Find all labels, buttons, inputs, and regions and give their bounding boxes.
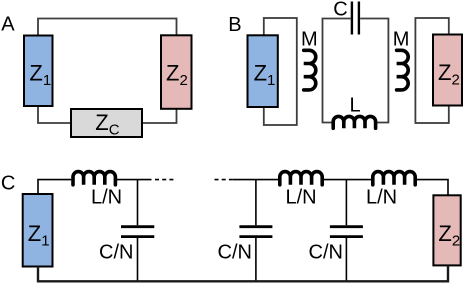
inductor L/N second (panel C) <box>280 172 322 185</box>
wire top of A <box>38 19 177 36</box>
shunt branch node 2 wire <box>255 180 257 281</box>
coupling coil M left (panel B) <box>304 50 316 90</box>
svg-text:B: B <box>228 14 241 36</box>
shunt branch node 1 wire <box>137 180 139 281</box>
impedance Z2 (panel C) <box>433 195 460 265</box>
capacitor C/N third (panel C) <box>330 227 363 237</box>
svg-text:C/N: C/N <box>218 242 252 264</box>
svg-text:L/N: L/N <box>286 187 317 209</box>
svg-text:C: C <box>333 0 347 21</box>
left resonator loop (panel B) <box>264 18 297 125</box>
impedance Z2 (panel A) <box>161 35 192 109</box>
svg-text:L/N: L/N <box>366 187 397 209</box>
svg-text:C/N: C/N <box>309 242 343 264</box>
top wire segment 2 with dashed break (panel C) <box>115 179 151 181</box>
impedance Z2 (panel B) <box>433 35 462 106</box>
inductor L (panel B) <box>333 116 375 128</box>
impedance Z1 (panel A) <box>24 36 53 107</box>
svg-text:M: M <box>301 29 318 51</box>
svg-text:A: A <box>1 13 15 35</box>
bottom bus wire (panel C) <box>38 265 448 281</box>
svg-text:L: L <box>350 95 361 117</box>
inductor L/N first (panel C) <box>73 172 115 185</box>
inductor L/N third (panel C) <box>373 172 415 185</box>
top wire segment 4 (panel C) <box>415 180 448 196</box>
coupling coil M right (panel B) <box>397 50 409 90</box>
svg-text:L/N: L/N <box>91 187 122 209</box>
svg-text:C: C <box>1 173 15 195</box>
top wire segment 3 (panel C) <box>322 179 373 181</box>
svg-text:C/N: C/N <box>99 242 133 264</box>
svg-text:M: M <box>393 29 410 51</box>
capacitor C/N second (panel C) <box>239 227 272 237</box>
shunt branch node 3 wire <box>345 180 347 281</box>
right resonator loop (panel B) <box>415 18 448 123</box>
coupling impedance ZC (panel A) <box>71 109 142 138</box>
impedance Z1 (panel C) <box>23 194 53 267</box>
capacitor C/N first (panel C) <box>121 227 154 237</box>
middle resonator box (panel B) <box>323 19 389 123</box>
impedance Z1 (panel B) <box>248 35 278 107</box>
wire bottom-right of A <box>142 109 177 123</box>
wire bottom-left of A <box>38 106 71 123</box>
top wire segment 1 (panel C) <box>38 180 73 194</box>
capacitor C plates (panel B) <box>352 2 359 35</box>
